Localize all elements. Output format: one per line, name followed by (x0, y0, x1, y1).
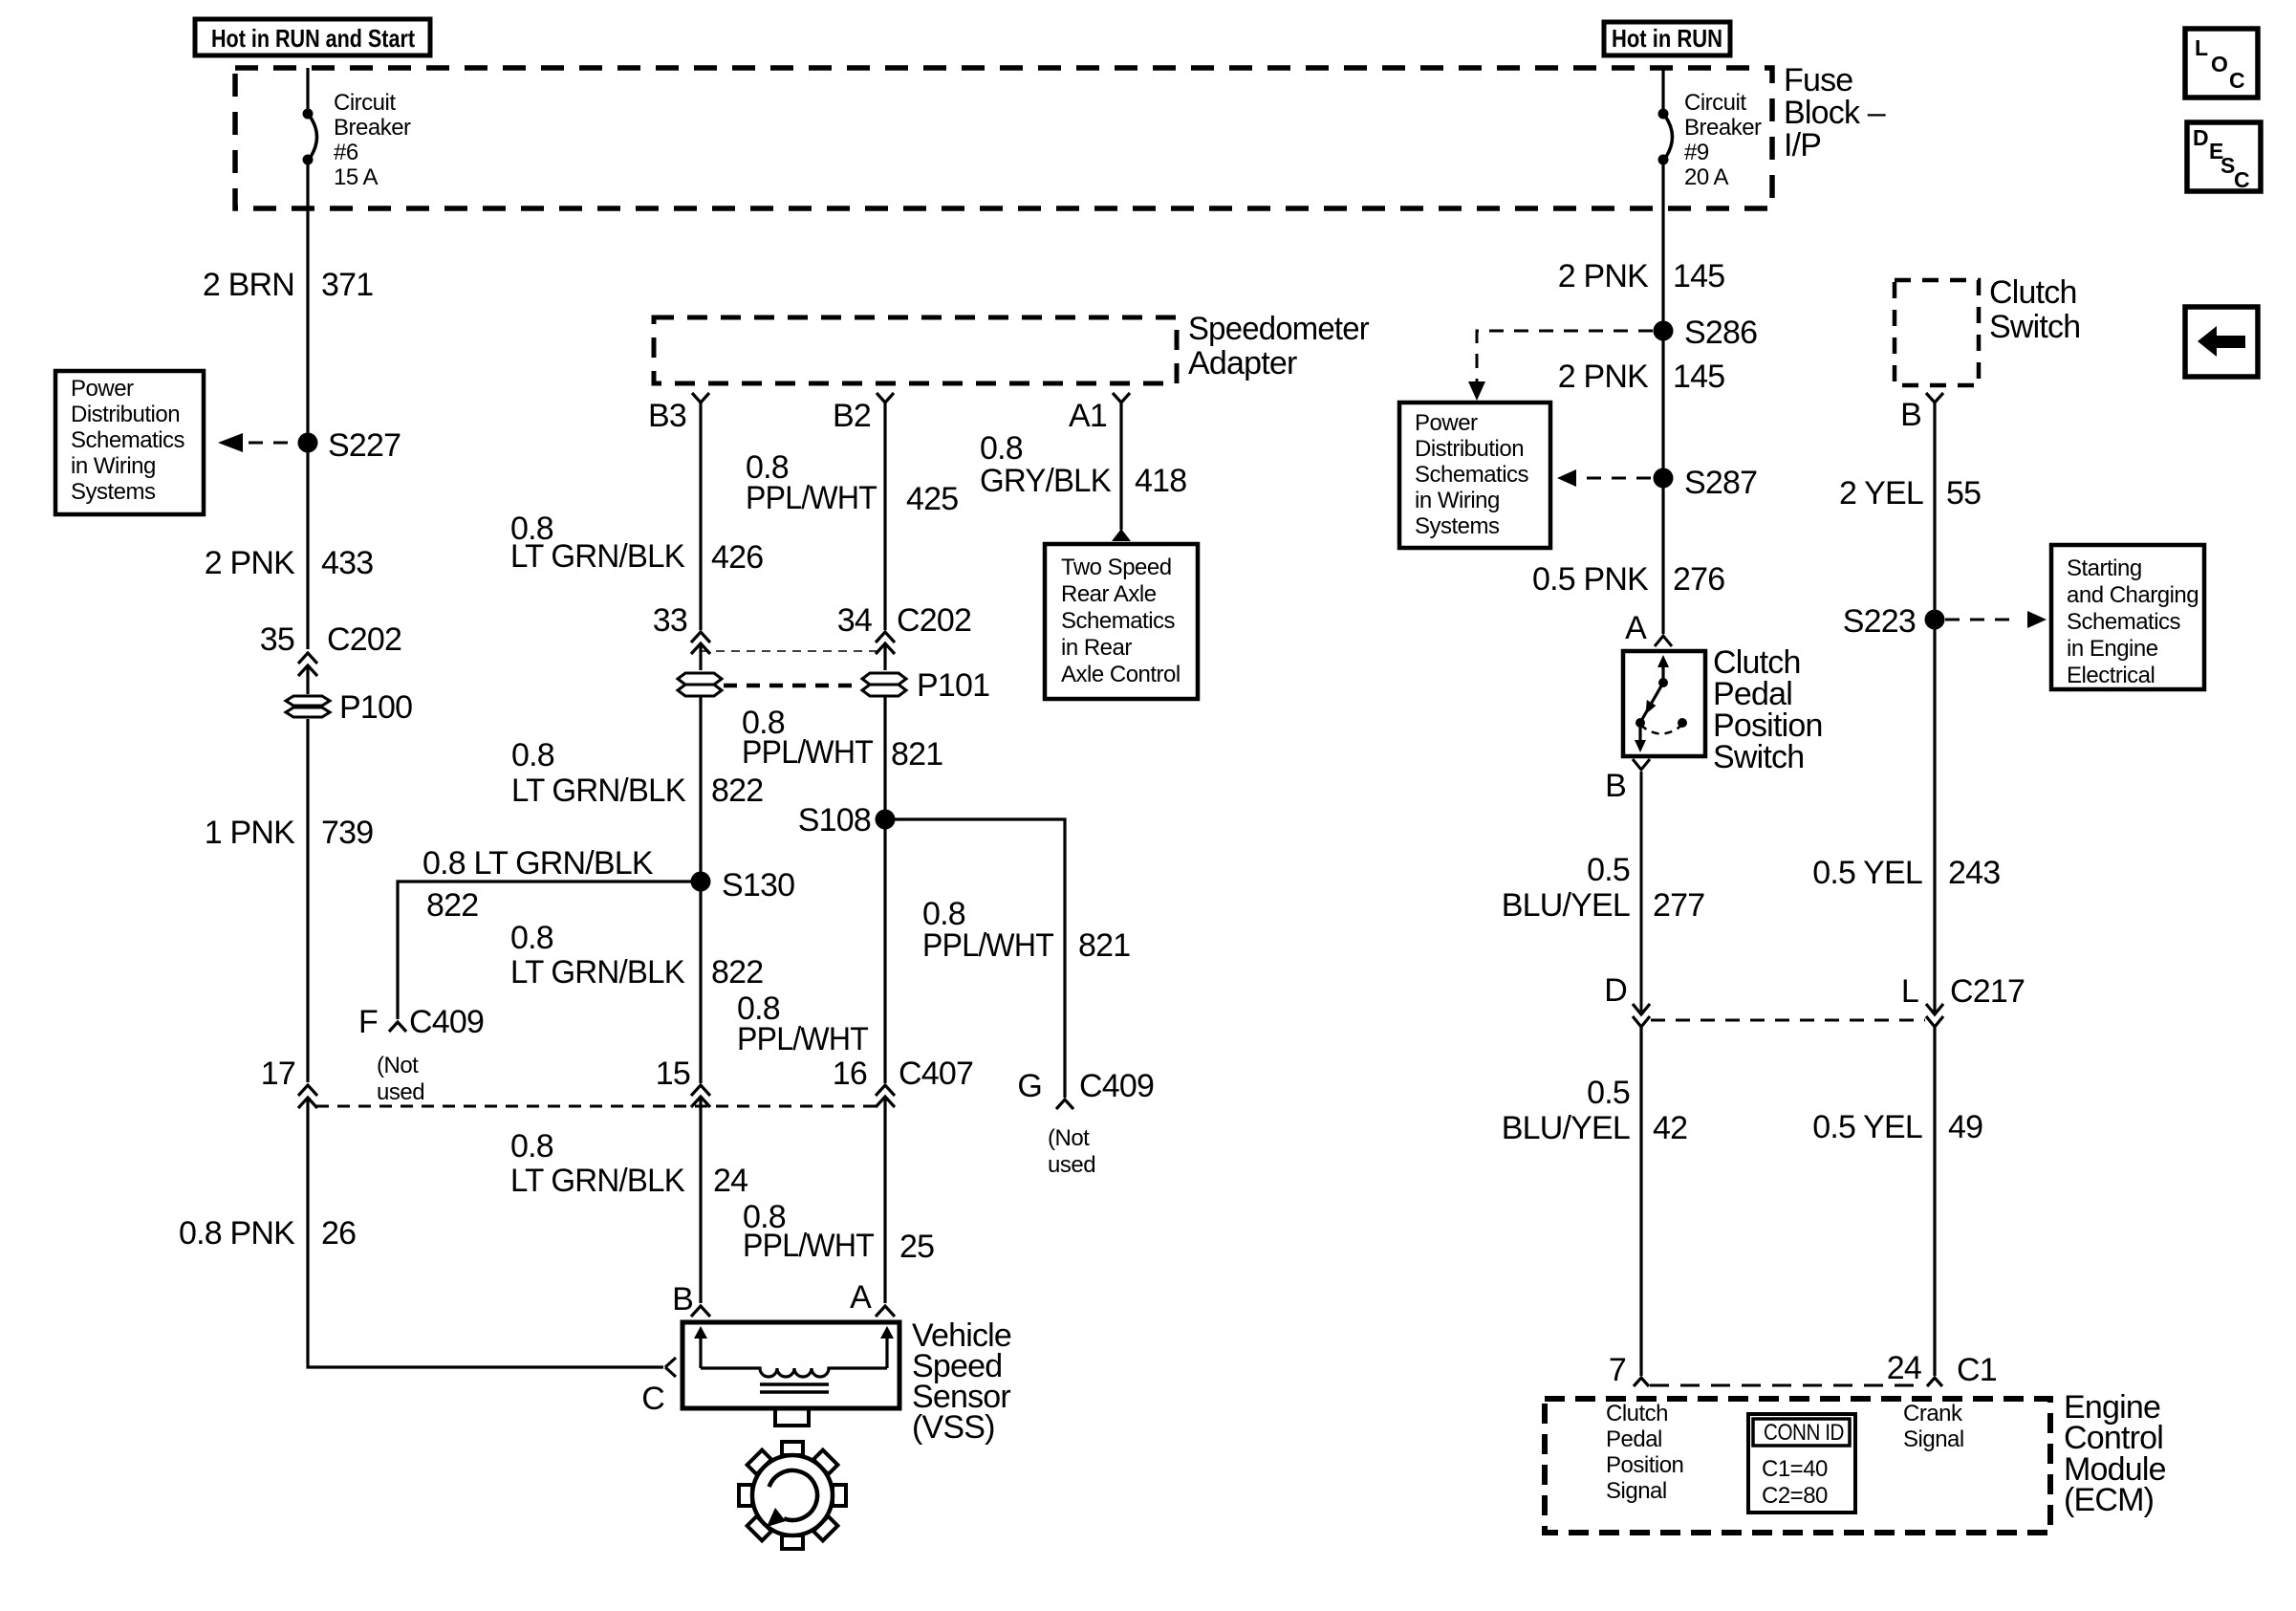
svg-text:in Wiring: in Wiring (1415, 488, 1500, 513)
svg-text:Adapter: Adapter (1188, 345, 1297, 381)
wire: B2 S108 to 16 (883, 819, 886, 1083)
clutch switch dashed box (1895, 280, 1979, 385)
terminal B at VSS (691, 1306, 710, 1317)
svg-text:C409: C409 (409, 1004, 484, 1040)
svg-text:426: 426 (711, 539, 763, 576)
svg-text:2 PNK: 2 PNK (205, 545, 295, 581)
connector C217 pin D chevrons (1633, 1004, 1650, 1014)
component: clutch pedal position switch box (1623, 651, 1705, 756)
svg-text:S130: S130 (722, 867, 794, 903)
wire: left rail 17 down and across to VSS C (308, 1098, 663, 1367)
svg-text:15: 15 (656, 1056, 690, 1092)
rotation arrow arc (769, 1470, 817, 1520)
VSS coil (701, 1368, 887, 1377)
wire: S108 branch right and down to G C409 (885, 819, 1065, 1098)
dashed ref arrow from S227 to power distribution box (249, 442, 297, 445)
nav box back arrow (2185, 307, 2258, 377)
dashed connector line C217 D-L (1651, 1019, 1925, 1022)
svg-text:Schematics: Schematics (1415, 462, 1529, 488)
VSS internal arrowheads (694, 1326, 707, 1339)
wire: left rail below breaker 6 (306, 164, 309, 649)
svg-text:Schematics: Schematics (2067, 609, 2181, 635)
female terminal B3 (692, 393, 709, 403)
svg-text:Hot in RUN: Hot in RUN (1612, 24, 1722, 53)
svg-text:145: 145 (1673, 359, 1724, 395)
svg-text:G: G (1017, 1068, 1042, 1104)
back arrow icon (2198, 326, 2245, 357)
speedometer adapter dashed box (654, 317, 1177, 383)
svg-text:(ECM): (ECM) (2064, 1482, 2154, 1518)
svg-text:PPL/WHT: PPL/WHT (742, 734, 873, 771)
svg-text:Signal: Signal (1903, 1426, 1964, 1452)
svg-text:0.8 LT GRN/BLK: 0.8 LT GRN/BLK (422, 845, 654, 882)
splice S223 (1925, 610, 1945, 630)
svg-text:Switch: Switch (1989, 309, 2080, 345)
svg-text:B: B (1605, 768, 1626, 804)
ref box: Power Distribution Schematics in Wiring Systems (right) (1399, 403, 1550, 548)
svg-text:D: D (1604, 972, 1627, 1009)
svg-text:(VSS): (VSS) (912, 1409, 995, 1446)
CONN ID table (1748, 1414, 1855, 1513)
dashed ref arrow S287 to power distribution box (1587, 477, 1653, 480)
arrowhead into two speed rear axle box (1112, 529, 1131, 541)
svg-text:7: 7 (1609, 1352, 1626, 1388)
svg-text:Power: Power (71, 376, 134, 402)
svg-text:S287: S287 (1684, 465, 1757, 501)
splice S130 (691, 872, 711, 892)
splice S227 (298, 433, 318, 453)
label box: Hot in RUN and Start (195, 19, 430, 55)
svg-text:S223: S223 (1843, 603, 1916, 640)
svg-text:D: D (2193, 125, 2209, 150)
svg-text:Electrical: Electrical (2067, 663, 2155, 688)
svg-text:(Not: (Not (377, 1053, 419, 1078)
svg-text:Fuse: Fuse (1784, 62, 1852, 98)
svg-text:Rear Axle: Rear Axle (1061, 581, 1157, 607)
svg-text:0.8: 0.8 (510, 1128, 553, 1165)
svg-text:L: L (1901, 973, 1918, 1010)
wire: B2 between 34 and P101 (883, 643, 886, 670)
wire: S130 branch left and down to F C409 (398, 882, 701, 1019)
svg-text:C407: C407 (899, 1056, 973, 1092)
svg-text:LT GRN/BLK: LT GRN/BLK (510, 1163, 685, 1199)
svg-text:24: 24 (713, 1163, 747, 1199)
svg-text:24: 24 (1887, 1350, 1921, 1386)
svg-text:20 A: 20 A (1684, 164, 1729, 190)
svg-text:Position: Position (1606, 1452, 1683, 1478)
svg-text:276: 276 (1673, 561, 1724, 598)
svg-text:BLU/YEL: BLU/YEL (1502, 1110, 1630, 1146)
dashed connector line P101 (724, 684, 860, 688)
svg-text:16: 16 (833, 1056, 867, 1092)
wire: right rail below breaker 9 down to clutch pedal switch (1661, 164, 1664, 634)
VSS reluctor gear (717, 1420, 868, 1571)
terminal 7 into ECM (1634, 1378, 1649, 1386)
svg-text:A1: A1 (1069, 398, 1107, 434)
svg-text:P100: P100 (339, 689, 412, 726)
svg-text:0.5 YEL: 0.5 YEL (1812, 855, 1922, 891)
svg-text:L: L (2195, 35, 2208, 60)
wire: A1 rail to two speed box (1119, 403, 1122, 530)
svg-text:822: 822 (711, 773, 763, 809)
wire: B2 rail upper (883, 403, 886, 630)
svg-text:Block –: Block – (1784, 95, 1886, 131)
svg-text:I/P: I/P (1784, 127, 1821, 163)
svg-text:and Charging: and Charging (2067, 582, 2199, 608)
dashed ref line S286 to power distribution box (1477, 331, 1653, 382)
svg-text:Crank: Crank (1903, 1401, 1963, 1426)
connector C217 pin L chevrons (1926, 1004, 1943, 1014)
circuit breaker #6 arc (311, 118, 317, 157)
svg-text:0.5: 0.5 (1587, 1075, 1630, 1111)
wire: B3 P101 to S130 (699, 696, 702, 882)
svg-text:Starting: Starting (2067, 555, 2142, 581)
ref box: Power Distribution Schematics in Wiring Systems (left) (55, 371, 204, 514)
circuit breaker #9 dots (1658, 109, 1669, 120)
svg-text:B2: B2 (833, 398, 871, 434)
svg-text:Two Speed: Two Speed (1061, 555, 1172, 580)
svg-text:822: 822 (426, 887, 478, 924)
svg-text:Breaker: Breaker (334, 115, 411, 141)
svg-text:Schematics: Schematics (1061, 608, 1176, 634)
svg-text:2 PNK: 2 PNK (1558, 359, 1649, 395)
svg-text:418: 418 (1135, 463, 1186, 499)
terminal A into clutch pedal position switch (1655, 636, 1672, 646)
svg-text:33: 33 (653, 602, 687, 639)
svg-text:BLU/YEL: BLU/YEL (1502, 887, 1630, 924)
wire: B2 P101 to S108 (883, 696, 886, 819)
svg-text:PPL/WHT: PPL/WHT (746, 480, 877, 516)
dashed connector line C407 17-15-16 (316, 1105, 877, 1108)
svg-text:C: C (2234, 167, 2250, 192)
svg-text:F: F (358, 1004, 378, 1040)
svg-text:GRY/BLK: GRY/BLK (980, 463, 1112, 499)
svg-text:PPL/WHT: PPL/WHT (737, 1021, 868, 1057)
female terminal F C409 (389, 1022, 406, 1032)
ref box: Two Speed Rear Axle Schematics in Rear Axle Control (1045, 544, 1198, 699)
svg-text:433: 433 (321, 545, 373, 581)
svg-text:739: 739 (321, 815, 373, 851)
wire: left rail P100 to connector 17 (306, 719, 309, 1082)
component: Vehicle Speed Sensor box (682, 1322, 899, 1408)
svg-text:#6: #6 (334, 140, 358, 165)
svg-text:821: 821 (1078, 927, 1130, 964)
splice S287 (1654, 468, 1674, 489)
svg-text:A: A (850, 1279, 872, 1316)
splice S108 (876, 810, 896, 830)
svg-text:Distribution: Distribution (71, 402, 180, 427)
switch arrowheads and contact dots (1657, 655, 1669, 667)
svg-text:2 PNK: 2 PNK (1558, 258, 1649, 294)
wire: B3 S130 to 15 (699, 882, 702, 1083)
svg-text:371: 371 (321, 267, 373, 303)
svg-text:LT GRN/BLK: LT GRN/BLK (510, 538, 685, 575)
svg-text:(Not: (Not (1048, 1125, 1090, 1151)
svg-text:0.5 PNK: 0.5 PNK (1532, 561, 1649, 598)
svg-text:Systems: Systems (71, 479, 156, 505)
switch contact arm from A (1661, 664, 1664, 681)
terminal B below clutch pedal position switch (1633, 759, 1650, 770)
ref box: Starting and Charging Schematics in Engine Electrical (2051, 545, 2204, 689)
label box: Hot in RUN (1604, 22, 1730, 55)
svg-text:Breaker: Breaker (1684, 115, 1762, 141)
wire: B3 15 to VSS B (699, 1097, 702, 1303)
svg-text:B3: B3 (648, 398, 686, 434)
svg-text:Signal: Signal (1606, 1478, 1667, 1504)
svg-text:145: 145 (1673, 258, 1724, 294)
wire: B3 between 33 and P101 (699, 643, 702, 670)
wire label 0.8 PPL/WHT 425 (510, 430, 1186, 576)
wire: left rail into breaker 6 (306, 68, 309, 109)
svg-text:LT GRN/BLK: LT GRN/BLK (510, 954, 685, 991)
svg-text:#9: #9 (1684, 140, 1709, 165)
svg-text:0.8: 0.8 (511, 737, 554, 773)
svg-text:C1: C1 (1957, 1352, 1997, 1388)
splice S286 (1654, 321, 1674, 341)
svg-text:in Rear: in Rear (1061, 635, 1132, 661)
svg-text:Hot in RUN and Start: Hot in RUN and Start (211, 24, 415, 53)
svg-text:B: B (672, 1281, 693, 1317)
svg-text:C202: C202 (327, 621, 401, 658)
svg-text:S108: S108 (798, 802, 871, 838)
svg-text:1 PNK: 1 PNK (205, 815, 295, 851)
svg-text:in Wiring: in Wiring (71, 453, 156, 479)
svg-text:C409: C409 (1079, 1068, 1154, 1104)
female terminal A1 (1113, 393, 1130, 403)
dashed line ECM connector face (1650, 1384, 1925, 1387)
nav box LOC (2185, 29, 2258, 98)
svg-text:0.8 PNK: 0.8 PNK (179, 1215, 295, 1252)
connector C202 pin 34 chevrons (876, 632, 895, 642)
wire: B3 rail upper (699, 403, 702, 630)
svg-text:used: used (1048, 1152, 1095, 1178)
svg-text:Power: Power (1415, 410, 1478, 436)
svg-text:35: 35 (260, 621, 294, 658)
svg-text:C217: C217 (1950, 973, 2025, 1010)
svg-text:S286: S286 (1684, 315, 1757, 351)
svg-text:C: C (641, 1381, 664, 1417)
terminal A at VSS (876, 1306, 895, 1317)
svg-text:used: used (377, 1079, 424, 1105)
svg-text:425: 425 (906, 481, 958, 517)
svg-text:C: C (2229, 68, 2245, 93)
wire: B to D connector (1640, 772, 1643, 1012)
svg-text:0.5 YEL: 0.5 YEL (1812, 1109, 1922, 1145)
svg-text:Systems: Systems (1415, 513, 1500, 539)
svg-text:55: 55 (1946, 475, 1981, 512)
svg-text:O: O (2211, 52, 2228, 76)
female terminal B2 (877, 393, 894, 403)
connector C407 pin 15 chevrons (691, 1085, 710, 1096)
svg-text:821: 821 (891, 736, 942, 773)
connector C407 pin 16 chevrons (876, 1085, 895, 1096)
svg-text:25: 25 (899, 1229, 934, 1265)
svg-text:0.5: 0.5 (1587, 852, 1630, 888)
svg-text:26: 26 (321, 1215, 356, 1252)
svg-text:822: 822 (711, 954, 763, 991)
svg-text:Clutch: Clutch (1606, 1401, 1668, 1426)
fuse block I/P dashed box (235, 68, 1772, 208)
svg-text:Circuit: Circuit (334, 90, 396, 116)
svg-text:Switch: Switch (1713, 739, 1804, 775)
svg-text:277: 277 (1653, 887, 1704, 924)
svg-text:Speedometer: Speedometer (1188, 311, 1369, 347)
connector C202 35 chevrons on left rail (298, 653, 317, 694)
svg-text:Axle Control: Axle Control (1061, 662, 1180, 687)
svg-text:PPL/WHT: PPL/WHT (922, 927, 1053, 964)
wire: L to ECM pin 24 (1933, 1027, 1936, 1376)
nav box DESC (2187, 122, 2261, 191)
svg-text:0.8: 0.8 (980, 430, 1023, 467)
pass-through grommet P100 (286, 696, 330, 717)
svg-text:Schematics: Schematics (71, 427, 185, 453)
svg-text:C2=80: C2=80 (1762, 1483, 1828, 1509)
svg-text:in Engine: in Engine (2067, 636, 2158, 662)
circuit breaker #6 dots (303, 109, 314, 120)
component: Engine Control Module dashed box (1545, 1399, 2050, 1533)
circuit breaker #9 arc (1666, 118, 1673, 157)
terminal 24 into ECM (1927, 1378, 1942, 1386)
svg-text:Circuit: Circuit (1684, 90, 1746, 116)
svg-text:Distribution: Distribution (1415, 436, 1524, 462)
svg-text:2 YEL: 2 YEL (1839, 475, 1923, 512)
wire: left rail between C202 and P100 (306, 665, 309, 694)
svg-text:B: B (1900, 397, 1921, 433)
svg-text:Pedal: Pedal (1606, 1426, 1662, 1452)
VSS internal pin arrows (699, 1336, 702, 1368)
svg-text:34: 34 (837, 602, 872, 639)
wire: clutch switch B to S223 (1933, 403, 1936, 1012)
connector C202 pin 33 chevrons (691, 632, 710, 642)
svg-text:PPL/WHT: PPL/WHT (743, 1228, 874, 1264)
svg-text:S227: S227 (328, 427, 401, 464)
female terminal C at VSS (665, 1358, 676, 1377)
dashed ref arrow S223 to starting and charging box (1945, 619, 2019, 621)
dashed connector line C202 33-34 (701, 650, 885, 652)
wire: right rail into breaker 9 (1661, 68, 1664, 109)
svg-text:0.8: 0.8 (510, 920, 553, 956)
svg-text:243: 243 (1948, 855, 2000, 891)
female terminal G C409 (1056, 1099, 1073, 1109)
female terminal B clutch switch (1926, 393, 1943, 403)
svg-text:LT GRN/BLK: LT GRN/BLK (511, 773, 686, 809)
svg-text:15 A: 15 A (334, 164, 379, 190)
svg-text:CONN ID: CONN ID (1764, 1420, 1844, 1446)
svg-text:A: A (1625, 610, 1647, 646)
svg-text:Clutch: Clutch (1989, 274, 2077, 311)
gear teeth (717, 1420, 868, 1571)
svg-text:2 BRN: 2 BRN (203, 267, 294, 303)
wire: B2 16 to VSS A (883, 1097, 886, 1303)
VSS mounting stub (775, 1408, 809, 1426)
pass-through grommet P101 on B3 (678, 673, 722, 696)
text: Clutch Pedal Position Switch (1713, 644, 1823, 775)
pass-through grommet P101 on B2 (862, 673, 906, 696)
switch lower throw to B (1638, 723, 1641, 745)
svg-text:49: 49 (1948, 1109, 1982, 1145)
svg-text:C202: C202 (897, 602, 971, 639)
svg-text:C1=40: C1=40 (1762, 1456, 1828, 1482)
VSS core lines (760, 1384, 829, 1392)
svg-text:17: 17 (261, 1056, 295, 1092)
svg-text:P101: P101 (917, 667, 989, 704)
switch travel dashed arc (1640, 725, 1682, 734)
svg-text:42: 42 (1653, 1110, 1687, 1146)
connector 17 chevrons (298, 1085, 317, 1096)
wire: D to ECM pin 7 (1639, 1027, 1642, 1376)
